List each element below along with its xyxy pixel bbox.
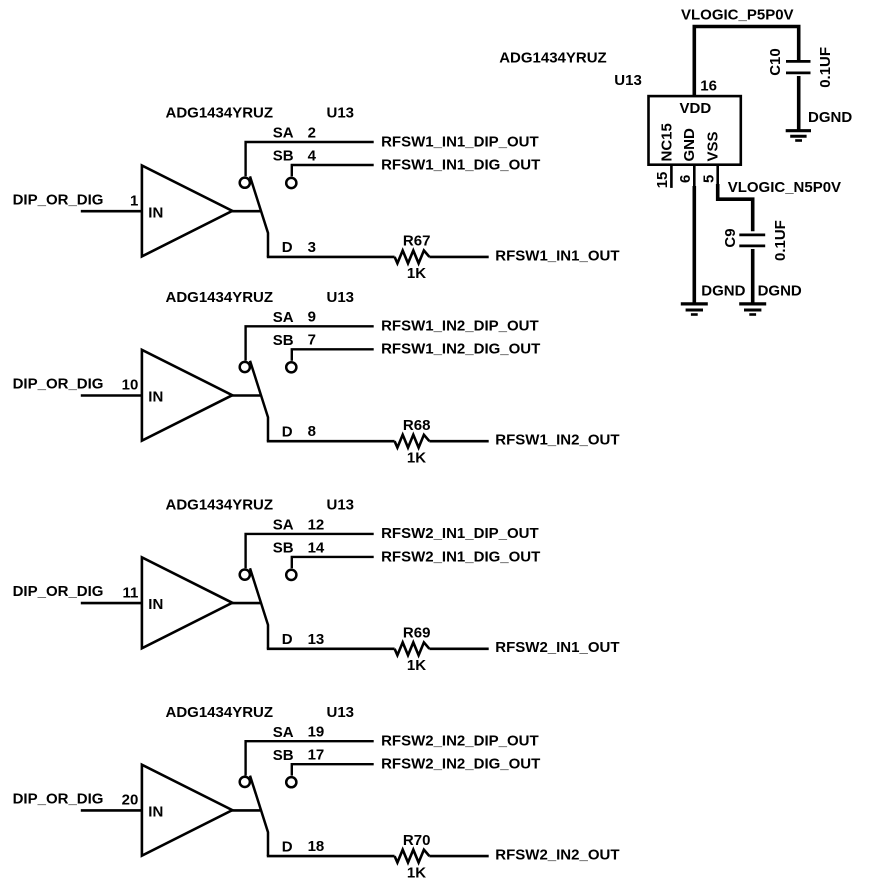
svg-text:1K: 1K: [407, 864, 426, 881]
capacitor C9: [739, 233, 765, 236]
svg-text:IN: IN: [148, 204, 163, 221]
wire input: [81, 809, 142, 812]
wire D to resistor: [267, 440, 395, 443]
wire SB: [292, 165, 374, 176]
svg-text:D: D: [282, 239, 293, 256]
switch arm wire: [250, 568, 268, 649]
capacitor C10: [786, 60, 811, 63]
wire SA: [246, 741, 374, 775]
svg-text:RFSW2_IN2_DIG_OUT: RFSW2_IN2_DIG_OUT: [381, 756, 540, 773]
contact SB: [286, 362, 296, 372]
contact SA: [240, 570, 250, 580]
svg-text:IN: IN: [148, 596, 163, 613]
U13 body: [649, 96, 741, 165]
svg-text:R68: R68: [403, 417, 431, 434]
svg-text:ADG1434YRUZ: ADG1434YRUZ: [499, 49, 607, 66]
contact SA: [240, 362, 250, 372]
wire resistor to output: [429, 256, 488, 259]
switch section 3 of U13: [13, 497, 620, 675]
wire C10 to ground: [797, 76, 801, 130]
svg-text:RFSW1_IN1_DIG_OUT: RFSW1_IN1_DIG_OUT: [381, 156, 540, 173]
svg-text:SA: SA: [273, 517, 294, 534]
resistor R68: [395, 435, 430, 448]
svg-text:DGND: DGND: [808, 109, 852, 126]
wire input: [81, 210, 142, 213]
svg-text:D: D: [282, 631, 293, 648]
svg-text:SB: SB: [273, 540, 294, 557]
svg-text:NC15: NC15: [659, 123, 676, 161]
svg-text:RFSW1_IN2_DIG_OUT: RFSW1_IN2_DIG_OUT: [381, 341, 540, 358]
svg-text:RFSW2_IN1_OUT: RFSW2_IN1_OUT: [495, 639, 619, 656]
svg-text:11: 11: [122, 584, 138, 601]
wire SA: [246, 534, 374, 568]
resistor R70: [395, 850, 430, 863]
wire input: [81, 602, 142, 605]
svg-text:15: 15: [654, 172, 671, 189]
svg-text:ADG1434YRUZ: ADG1434YRUZ: [166, 704, 274, 721]
wire SA: [246, 142, 374, 176]
wire VLOGIC_P5P0V rail: [694, 27, 798, 97]
buffer IN (section 1): [142, 166, 232, 257]
wire D to resistor: [267, 647, 395, 650]
svg-text:14: 14: [308, 539, 325, 556]
contact SB: [286, 570, 296, 580]
svg-text:1K: 1K: [407, 265, 426, 282]
svg-text:13: 13: [308, 631, 325, 648]
svg-text:RFSW1_IN1_OUT: RFSW1_IN1_OUT: [495, 247, 619, 264]
switch section 2 of U13: [13, 289, 620, 467]
pin 15 stub (NC15): [670, 165, 673, 188]
ground symbol (pin 6 DGND): [681, 302, 708, 305]
svg-text:VLOGIC_P5P0V: VLOGIC_P5P0V: [681, 7, 794, 24]
wire buffer output to switch pole: [231, 210, 260, 213]
wire buffer output to switch pole: [231, 809, 260, 812]
svg-text:RFSW1_IN2_OUT: RFSW1_IN2_OUT: [495, 432, 619, 449]
svg-text:0.1UF: 0.1UF: [817, 47, 834, 88]
wire SA: [246, 326, 374, 360]
svg-text:R70: R70: [403, 832, 431, 849]
svg-text:SA: SA: [273, 724, 294, 741]
svg-text:8: 8: [308, 423, 316, 440]
contact SB: [286, 777, 296, 787]
svg-text:10: 10: [122, 377, 139, 394]
contact SA: [240, 178, 250, 188]
svg-text:ADG1434YRUZ: ADG1434YRUZ: [166, 105, 274, 122]
resistor R69: [395, 642, 430, 655]
svg-text:DIP_OR_DIG: DIP_OR_DIG: [13, 791, 104, 808]
ground symbol (C10 DGND): [786, 129, 811, 132]
pin 6 stub (GND): [693, 165, 696, 188]
switch arm wire: [250, 776, 268, 857]
svg-text:DIP_OR_DIG: DIP_OR_DIG: [13, 191, 104, 208]
svg-text:D: D: [282, 423, 293, 440]
svg-text:5: 5: [701, 175, 718, 183]
svg-text:RFSW2_IN1_DIP_OUT: RFSW2_IN1_DIP_OUT: [381, 525, 539, 542]
wire GND pin to ground: [692, 186, 696, 303]
contact SB: [286, 178, 296, 188]
svg-text:SB: SB: [273, 332, 294, 349]
switch section 4 of U13: [13, 704, 620, 882]
svg-text:19: 19: [308, 724, 325, 741]
svg-text:VDD: VDD: [680, 100, 712, 117]
buffer IN (section 3): [142, 557, 232, 648]
svg-text:U13: U13: [614, 72, 642, 89]
svg-text:U13: U13: [327, 289, 355, 306]
svg-text:1K: 1K: [407, 449, 426, 466]
wire SB: [292, 557, 374, 568]
svg-text:C10: C10: [767, 48, 784, 76]
svg-text:17: 17: [308, 747, 325, 764]
wire C9 to ground: [751, 249, 755, 303]
wire SB: [292, 764, 374, 775]
svg-text:U13: U13: [327, 704, 355, 721]
svg-text:C9: C9: [722, 228, 739, 247]
svg-text:RFSW2_IN1_DIG_OUT: RFSW2_IN1_DIG_OUT: [381, 548, 540, 565]
svg-text:4: 4: [308, 147, 317, 164]
svg-text:SB: SB: [273, 148, 294, 165]
wire resistor to output: [429, 440, 488, 443]
svg-text:IN: IN: [148, 804, 163, 821]
svg-text:SA: SA: [273, 125, 294, 142]
svg-text:GND: GND: [681, 128, 698, 162]
svg-text:ADG1434YRUZ: ADG1434YRUZ: [166, 497, 274, 514]
svg-text:RFSW2_IN2_OUT: RFSW2_IN2_OUT: [495, 847, 619, 864]
power pins section of U13: [499, 7, 852, 315]
svg-text:1K: 1K: [407, 657, 426, 674]
switch arm wire: [250, 361, 268, 442]
svg-text:2: 2: [308, 124, 316, 141]
wire buffer output to switch pole: [231, 602, 260, 605]
svg-text:16: 16: [700, 78, 717, 95]
svg-text:RFSW1_IN1_DIP_OUT: RFSW1_IN1_DIP_OUT: [381, 133, 539, 150]
resistor R67: [395, 251, 430, 264]
buffer IN (section 2): [142, 350, 232, 441]
svg-text:ADG1434YRUZ: ADG1434YRUZ: [166, 289, 274, 306]
wire SB: [292, 349, 374, 360]
svg-text:7: 7: [308, 332, 316, 349]
wire buffer output to switch pole: [231, 394, 260, 397]
svg-text:9: 9: [308, 309, 316, 326]
svg-text:RFSW1_IN2_DIP_OUT: RFSW1_IN2_DIP_OUT: [381, 318, 539, 335]
pin 5 stub (VSS): [716, 165, 719, 186]
svg-text:RFSW2_IN2_DIP_OUT: RFSW2_IN2_DIP_OUT: [381, 733, 539, 750]
svg-text:6: 6: [677, 175, 694, 183]
svg-text:DIP_OR_DIG: DIP_OR_DIG: [13, 376, 104, 393]
svg-text:DIP_OR_DIG: DIP_OR_DIG: [13, 583, 104, 600]
svg-text:R67: R67: [403, 233, 431, 250]
wire VSS to C9: [718, 184, 753, 231]
svg-text:IN: IN: [148, 389, 163, 406]
svg-text:VLOGIC_N5P0V: VLOGIC_N5P0V: [728, 179, 841, 196]
svg-text:DGND: DGND: [701, 283, 745, 300]
svg-text:DGND: DGND: [758, 283, 802, 300]
contact SA: [240, 777, 250, 787]
svg-text:D: D: [282, 838, 293, 855]
svg-text:R69: R69: [403, 625, 431, 642]
svg-text:18: 18: [308, 838, 325, 855]
svg-text:VSS: VSS: [704, 131, 721, 161]
ground symbol (C9 DGND): [739, 302, 766, 305]
wire resistor to output: [429, 855, 488, 858]
switch arm wire: [250, 176, 268, 257]
svg-text:20: 20: [122, 792, 139, 809]
svg-text:12: 12: [308, 516, 325, 533]
switch section 1 of U13: [13, 105, 620, 283]
svg-text:0.1UF: 0.1UF: [772, 220, 789, 261]
wire resistor to output: [429, 647, 488, 650]
wire input: [81, 394, 142, 397]
svg-text:SB: SB: [273, 747, 294, 764]
svg-text:1: 1: [130, 192, 138, 209]
wire D to resistor: [267, 256, 395, 259]
svg-text:SA: SA: [273, 309, 294, 326]
wire D to resistor: [267, 855, 395, 858]
svg-text:3: 3: [308, 239, 316, 256]
svg-text:U13: U13: [327, 105, 355, 122]
svg-text:U13: U13: [327, 497, 355, 514]
buffer IN (section 4): [142, 765, 232, 856]
